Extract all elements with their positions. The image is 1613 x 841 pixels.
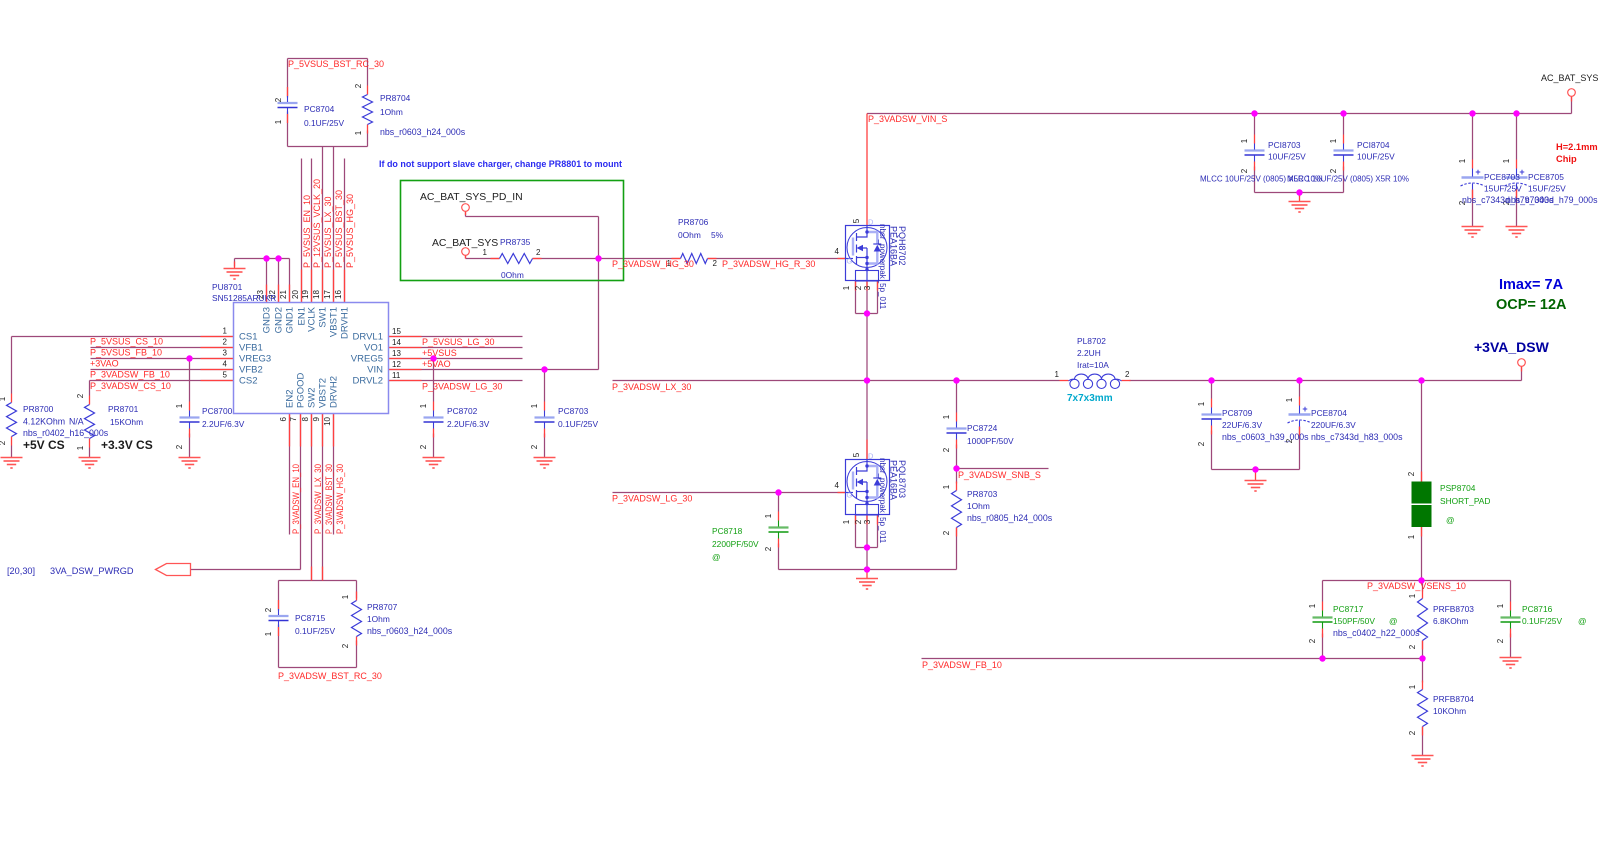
svg-text:1: 1 bbox=[175, 403, 184, 408]
svg-text:+5VSUS: +5VSUS bbox=[422, 348, 457, 358]
svg-text:1: 1 bbox=[1240, 138, 1249, 143]
svg-text:P_3VADSW_LX_30: P_3VADSW_LX_30 bbox=[313, 464, 323, 534]
svg-text:D: D bbox=[868, 452, 874, 461]
svg-text:P_3VADSW_LG_30: P_3VADSW_LG_30 bbox=[612, 494, 692, 504]
svg-text:2: 2 bbox=[1329, 168, 1338, 173]
svg-text:21: 21 bbox=[279, 290, 288, 299]
svg-text:nbs_c7343d_h79_000s: nbs_c7343d_h79_000s bbox=[1506, 195, 1598, 205]
svg-text:2: 2 bbox=[223, 338, 228, 347]
svg-text:P_3VADSW_LX_30: P_3VADSW_LX_30 bbox=[612, 382, 691, 392]
svg-text:+3.3V CS: +3.3V CS bbox=[101, 438, 153, 452]
svg-text:0.1UF/25V: 0.1UF/25V bbox=[558, 419, 598, 429]
svg-text:1000PF/50V: 1000PF/50V bbox=[967, 436, 1014, 446]
svg-text:1: 1 bbox=[1055, 370, 1060, 379]
svg-text:P_5VSUS_LG_30: P_5VSUS_LG_30 bbox=[422, 337, 495, 347]
svg-text:P_3VADSW_BST_RC_30: P_3VADSW_BST_RC_30 bbox=[278, 671, 382, 681]
svg-text:PR8706: PR8706 bbox=[678, 217, 709, 227]
svg-text:PC8724: PC8724 bbox=[967, 423, 998, 433]
svg-text:+: + bbox=[1519, 167, 1524, 177]
svg-text:P_5VSUS_EN_10: P_5VSUS_EN_10 bbox=[302, 195, 312, 268]
svg-text:1Ohm: 1Ohm bbox=[967, 501, 990, 511]
svg-text:P_3VADSW_VIN_S: P_3VADSW_VIN_S bbox=[868, 114, 947, 124]
svg-text:PC8717: PC8717 bbox=[1333, 604, 1364, 614]
svg-text:1: 1 bbox=[842, 519, 851, 524]
svg-text:2: 2 bbox=[0, 440, 7, 445]
svg-text:PC8715: PC8715 bbox=[295, 613, 326, 623]
svg-text:VFB1: VFB1 bbox=[239, 343, 263, 354]
svg-text:2: 2 bbox=[530, 444, 539, 449]
svg-text:AC_BAT_SYS_PD_IN: AC_BAT_SYS_PD_IN bbox=[420, 192, 523, 203]
svg-text:5: 5 bbox=[852, 218, 861, 223]
svg-text:GND3: GND3 bbox=[262, 307, 273, 333]
svg-text:1: 1 bbox=[1496, 603, 1505, 608]
svg-text:4: 4 bbox=[835, 247, 840, 256]
svg-text:1: 1 bbox=[942, 484, 951, 489]
svg-text:2: 2 bbox=[1308, 638, 1317, 643]
svg-text:PC8716: PC8716 bbox=[1522, 604, 1553, 614]
svg-text:7: 7 bbox=[289, 416, 298, 421]
svg-text:CS2: CS2 bbox=[239, 376, 257, 387]
svg-text:3VA_DSW_PWRGD: 3VA_DSW_PWRGD bbox=[50, 566, 134, 576]
svg-text:1: 1 bbox=[264, 631, 273, 636]
svg-text:14: 14 bbox=[392, 338, 401, 347]
svg-text:H=2.1mm: H=2.1mm bbox=[1556, 142, 1598, 152]
svg-text:2: 2 bbox=[354, 83, 363, 88]
svg-text:PEA16BA: PEA16BA bbox=[889, 460, 899, 500]
svg-text:1: 1 bbox=[274, 119, 283, 124]
svg-text:2: 2 bbox=[942, 530, 951, 535]
svg-text:GND2: GND2 bbox=[274, 307, 285, 333]
svg-text:5: 5 bbox=[223, 371, 228, 380]
svg-text:nbs_r0805_h24_000s: nbs_r0805_h24_000s bbox=[967, 513, 1053, 523]
svg-text:PSP8704: PSP8704 bbox=[1440, 483, 1476, 493]
svg-text:PR8701: PR8701 bbox=[108, 404, 139, 414]
svg-text:EN2: EN2 bbox=[285, 390, 296, 408]
svg-text:1: 1 bbox=[1329, 138, 1338, 143]
svg-text:PCI8704: PCI8704 bbox=[1357, 140, 1390, 150]
svg-text:+5V CS: +5V CS bbox=[23, 438, 65, 452]
svg-text:10UF/25V: 10UF/25V bbox=[1268, 152, 1306, 162]
svg-text:Irat=10A: Irat=10A bbox=[1077, 360, 1109, 370]
svg-text:+: + bbox=[1475, 167, 1480, 177]
svg-text:P_5VSUS_BST_RC_30: P_5VSUS_BST_RC_30 bbox=[288, 59, 384, 69]
svg-text:15UF/25V: 15UF/25V bbox=[1528, 184, 1566, 194]
svg-text:20: 20 bbox=[291, 290, 300, 299]
svg-text:10UF/25V: 10UF/25V bbox=[1357, 152, 1395, 162]
svg-text:Imax= 7A: Imax= 7A bbox=[1499, 277, 1564, 293]
svg-text:1Ohm: 1Ohm bbox=[367, 614, 390, 624]
svg-text:@: @ bbox=[1446, 515, 1455, 525]
svg-text:PC8700: PC8700 bbox=[202, 406, 233, 416]
svg-text:2: 2 bbox=[1197, 441, 1206, 446]
svg-text:PU8701: PU8701 bbox=[212, 282, 243, 292]
svg-text:PC8704: PC8704 bbox=[304, 104, 335, 114]
svg-text:12: 12 bbox=[392, 360, 401, 369]
svg-text:SN51285ARUKR: SN51285ARUKR bbox=[212, 293, 276, 303]
svg-text:1: 1 bbox=[0, 396, 7, 401]
svg-text:1: 1 bbox=[1407, 534, 1416, 539]
svg-text:DRVL2: DRVL2 bbox=[353, 376, 383, 387]
svg-text:P_5VSUS_FB_10: P_5VSUS_FB_10 bbox=[90, 348, 162, 358]
svg-text:1: 1 bbox=[1502, 158, 1511, 163]
svg-text:P_3VADSW_SNB_S: P_3VADSW_SNB_S bbox=[958, 470, 1041, 480]
svg-text:0.1UF/25V: 0.1UF/25V bbox=[295, 626, 335, 636]
svg-text:2200PF/50V: 2200PF/50V bbox=[712, 539, 759, 549]
svg-text:1: 1 bbox=[223, 327, 228, 336]
svg-text:@: @ bbox=[712, 552, 721, 562]
svg-text:nbsr_powerpak_5p_011: nbsr_powerpak_5p_011 bbox=[878, 458, 887, 544]
svg-text:@: @ bbox=[1389, 616, 1398, 626]
svg-text:SW1: SW1 bbox=[318, 307, 329, 328]
svg-text:1: 1 bbox=[1408, 684, 1417, 689]
svg-text:SW2: SW2 bbox=[307, 387, 318, 408]
svg-text:VBST2: VBST2 bbox=[318, 378, 329, 408]
svg-text:nbs_r0603_h24_000s: nbs_r0603_h24_000s bbox=[380, 127, 466, 137]
svg-text:1: 1 bbox=[419, 403, 428, 408]
svg-text:2: 2 bbox=[341, 643, 350, 648]
svg-text:nbsr_powerpak_5p_011: nbsr_powerpak_5p_011 bbox=[878, 224, 887, 310]
svg-text:PR8735: PR8735 bbox=[500, 237, 531, 247]
svg-text:+3VAO: +3VAO bbox=[90, 359, 119, 369]
svg-text:+5VAO: +5VAO bbox=[422, 359, 451, 369]
svg-text:P_5VSUS_LX_30: P_5VSUS_LX_30 bbox=[323, 196, 333, 268]
svg-text:2: 2 bbox=[419, 444, 428, 449]
svg-text:PC8703: PC8703 bbox=[558, 406, 589, 416]
svg-text:7x7x3mm: 7x7x3mm bbox=[1067, 393, 1113, 404]
svg-text:P_3VADSW_FB_10: P_3VADSW_FB_10 bbox=[90, 370, 170, 380]
svg-text:@: @ bbox=[1578, 616, 1587, 626]
svg-text:1: 1 bbox=[530, 403, 539, 408]
svg-text:VBST1: VBST1 bbox=[329, 307, 340, 337]
svg-text:1: 1 bbox=[842, 285, 851, 290]
svg-text:1: 1 bbox=[354, 130, 363, 135]
svg-text:1: 1 bbox=[483, 248, 488, 257]
svg-text:MLCC 10UF/25V (0805) X5R 10%: MLCC 10UF/25V (0805) X5R 10% bbox=[1287, 174, 1409, 184]
svg-text:PR8704: PR8704 bbox=[380, 93, 411, 103]
svg-text:6.8KOhm: 6.8KOhm bbox=[1433, 616, 1468, 626]
svg-text:DRVH1: DRVH1 bbox=[340, 307, 351, 339]
svg-text:2.2UF/6.3V: 2.2UF/6.3V bbox=[447, 419, 490, 429]
svg-text:2.2UF/6.3V: 2.2UF/6.3V bbox=[202, 419, 245, 429]
svg-text:AC_BAT_SYS: AC_BAT_SYS bbox=[432, 238, 498, 249]
svg-text:PCI8703: PCI8703 bbox=[1268, 140, 1301, 150]
svg-text:P_3VADSW_EN_10: P_3VADSW_EN_10 bbox=[291, 464, 301, 534]
svg-text:0Ohm: 0Ohm bbox=[501, 270, 524, 280]
svg-text:150PF/50V: 150PF/50V bbox=[1333, 616, 1375, 626]
svg-text:G: G bbox=[847, 257, 853, 266]
svg-text:1: 1 bbox=[76, 445, 85, 450]
svg-text:P_12VSUS_VCLK_20: P_12VSUS_VCLK_20 bbox=[312, 179, 322, 268]
svg-text:PCE8704: PCE8704 bbox=[1311, 408, 1347, 418]
svg-text:PCE8705: PCE8705 bbox=[1528, 172, 1564, 182]
svg-text:SHORT_PAD: SHORT_PAD bbox=[1440, 496, 1490, 506]
svg-text:17: 17 bbox=[323, 290, 332, 299]
svg-text:PR8700: PR8700 bbox=[23, 404, 54, 414]
svg-text:P_5VSUS_BST_30: P_5VSUS_BST_30 bbox=[334, 190, 344, 268]
svg-text:15UF/25V: 15UF/25V bbox=[1484, 184, 1522, 194]
svg-text:VREG5: VREG5 bbox=[351, 354, 383, 365]
svg-text:nbs_c0402_h22_000s: nbs_c0402_h22_000s bbox=[1333, 628, 1420, 638]
svg-text:nbs_r0402_h16_000s: nbs_r0402_h16_000s bbox=[23, 428, 109, 438]
svg-text:2: 2 bbox=[764, 546, 773, 551]
svg-text:2: 2 bbox=[854, 285, 863, 290]
svg-text:4.12KOhm: 4.12KOhm bbox=[23, 417, 65, 427]
svg-text:VO1: VO1 bbox=[364, 343, 383, 354]
svg-text:GND1: GND1 bbox=[285, 307, 296, 333]
svg-text:PL8702: PL8702 bbox=[1077, 336, 1106, 346]
svg-text:10: 10 bbox=[323, 416, 332, 425]
svg-text:P_3VADSW_HG_30: P_3VADSW_HG_30 bbox=[612, 259, 694, 269]
svg-text:22UF/6.3V: 22UF/6.3V bbox=[1222, 420, 1262, 430]
svg-text:1: 1 bbox=[1285, 397, 1294, 402]
svg-text:PC8702: PC8702 bbox=[447, 406, 478, 416]
svg-text:VFB2: VFB2 bbox=[239, 365, 263, 376]
svg-text:If do not support slave charge: If do not support slave charger, change … bbox=[379, 159, 623, 170]
svg-text:PC8718: PC8718 bbox=[712, 526, 743, 536]
svg-text:18: 18 bbox=[312, 290, 321, 299]
svg-text:VCLK: VCLK bbox=[307, 306, 318, 331]
svg-text:Chip: Chip bbox=[1556, 154, 1577, 164]
svg-text:0.1UF/25V: 0.1UF/25V bbox=[304, 118, 344, 128]
svg-text:PGOOD: PGOOD bbox=[296, 372, 307, 408]
svg-text:P_3VADSW_VSENS_10: P_3VADSW_VSENS_10 bbox=[1367, 581, 1466, 591]
svg-text:0.1UF/25V: 0.1UF/25V bbox=[1522, 616, 1562, 626]
svg-text:2: 2 bbox=[942, 447, 951, 452]
svg-text:1: 1 bbox=[942, 414, 951, 419]
svg-text:1: 1 bbox=[764, 513, 773, 518]
svg-text:2: 2 bbox=[854, 519, 863, 524]
svg-text:13: 13 bbox=[392, 349, 401, 358]
svg-text:2.2UH: 2.2UH bbox=[1077, 348, 1101, 358]
svg-text:1: 1 bbox=[1408, 593, 1417, 598]
svg-text:+3VA_DSW: +3VA_DSW bbox=[1474, 339, 1550, 355]
svg-text:nbs_r0603_h24_000s: nbs_r0603_h24_000s bbox=[367, 626, 453, 636]
svg-text:2: 2 bbox=[264, 607, 273, 612]
svg-text:P_3VADSW_LG_30: P_3VADSW_LG_30 bbox=[422, 382, 502, 392]
svg-text:G: G bbox=[847, 491, 853, 500]
svg-text:2: 2 bbox=[1407, 471, 1416, 476]
svg-text:2: 2 bbox=[1408, 644, 1417, 649]
svg-text:5%: 5% bbox=[711, 230, 724, 240]
svg-text:220UF/6.3V: 220UF/6.3V bbox=[1311, 420, 1356, 430]
svg-text:P_3VADSW_CS_10: P_3VADSW_CS_10 bbox=[90, 381, 171, 391]
svg-text:16: 16 bbox=[334, 290, 343, 299]
svg-text:9: 9 bbox=[312, 416, 321, 421]
svg-text:2: 2 bbox=[1408, 730, 1417, 735]
svg-text:N/A: N/A bbox=[69, 417, 84, 427]
svg-text:1Ohm: 1Ohm bbox=[380, 107, 403, 117]
svg-text:2: 2 bbox=[175, 444, 184, 449]
svg-text:PC8709: PC8709 bbox=[1222, 408, 1253, 418]
svg-text:1: 1 bbox=[667, 259, 672, 268]
svg-text:P_5VSUS_CS_10: P_5VSUS_CS_10 bbox=[90, 337, 163, 347]
svg-text:DRVH2: DRVH2 bbox=[329, 376, 340, 408]
svg-text:1: 1 bbox=[1197, 401, 1206, 406]
svg-text:15: 15 bbox=[392, 327, 401, 336]
svg-text:VREG3: VREG3 bbox=[239, 354, 271, 365]
svg-text:P_3VADSW_HG_R_30: P_3VADSW_HG_R_30 bbox=[722, 259, 815, 269]
svg-text:15KOhm: 15KOhm bbox=[110, 417, 143, 427]
svg-text:1: 1 bbox=[1308, 603, 1317, 608]
svg-text:PRFB8703: PRFB8703 bbox=[1433, 604, 1474, 614]
svg-text:P_5VSUS_HG_30: P_5VSUS_HG_30 bbox=[345, 194, 355, 268]
svg-text:2: 2 bbox=[1496, 638, 1505, 643]
svg-text:PR8703: PR8703 bbox=[967, 489, 998, 499]
svg-text:PR8707: PR8707 bbox=[367, 602, 398, 612]
svg-text:2: 2 bbox=[1285, 438, 1294, 443]
svg-text:AC_BAT_SYS: AC_BAT_SYS bbox=[1541, 73, 1598, 83]
svg-text:PRFB8704: PRFB8704 bbox=[1433, 694, 1474, 704]
svg-text:2: 2 bbox=[274, 97, 283, 102]
svg-text:4: 4 bbox=[835, 481, 840, 490]
svg-text:VIN: VIN bbox=[367, 365, 383, 376]
svg-text:5: 5 bbox=[852, 452, 861, 457]
svg-text:2: 2 bbox=[1125, 370, 1130, 379]
svg-text:nbs_c0603_h39_000s: nbs_c0603_h39_000s bbox=[1222, 432, 1309, 442]
svg-text:1: 1 bbox=[341, 594, 350, 599]
svg-text:0Ohm: 0Ohm bbox=[678, 230, 701, 240]
svg-text:3: 3 bbox=[223, 349, 228, 358]
svg-text:CS1: CS1 bbox=[239, 332, 257, 343]
svg-text:10KOhm: 10KOhm bbox=[1433, 706, 1466, 716]
svg-text:2: 2 bbox=[713, 259, 718, 268]
svg-text:DRVL1: DRVL1 bbox=[353, 332, 383, 343]
svg-text:OCP= 12A: OCP= 12A bbox=[1496, 297, 1567, 313]
svg-text:[20,30]: [20,30] bbox=[7, 566, 35, 576]
svg-text:3: 3 bbox=[863, 285, 872, 290]
svg-text:19: 19 bbox=[301, 290, 310, 299]
svg-text:PEA16BA: PEA16BA bbox=[889, 226, 899, 266]
svg-text:8: 8 bbox=[301, 416, 310, 421]
svg-text:2: 2 bbox=[76, 393, 85, 398]
svg-text:1: 1 bbox=[1458, 158, 1467, 163]
svg-text:P_3VADSW_HG_30: P_3VADSW_HG_30 bbox=[335, 464, 345, 534]
svg-text:P_3VADSW_BST_30: P_3VADSW_BST_30 bbox=[324, 464, 334, 534]
svg-text:2: 2 bbox=[536, 248, 541, 257]
svg-text:P_3VADSW_FB_10: P_3VADSW_FB_10 bbox=[922, 660, 1002, 670]
svg-text:D: D bbox=[868, 218, 874, 227]
svg-text:6: 6 bbox=[279, 416, 288, 421]
svg-text:4: 4 bbox=[223, 360, 228, 369]
svg-text:PCE8703: PCE8703 bbox=[1484, 172, 1520, 182]
svg-text:nbs_c7343d_h83_000s: nbs_c7343d_h83_000s bbox=[1311, 432, 1403, 442]
svg-text:+: + bbox=[1302, 404, 1307, 414]
svg-text:3: 3 bbox=[863, 519, 872, 524]
svg-text:11: 11 bbox=[392, 371, 401, 380]
svg-text:2: 2 bbox=[1240, 168, 1249, 173]
